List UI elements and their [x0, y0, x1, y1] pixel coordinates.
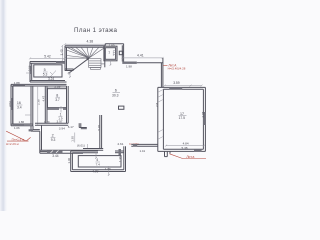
svg-text:3.44: 3.44 [52, 154, 58, 158]
svg-text:3.7: 3.7 [55, 98, 60, 102]
svg-text:6: 6 [115, 89, 117, 93]
svg-text:1.89: 1.89 [109, 43, 115, 47]
svg-text:4.41: 4.41 [137, 53, 144, 57]
svg-text:5.38: 5.38 [182, 146, 188, 150]
svg-text:16: 16 [17, 101, 21, 105]
svg-text:4.38: 4.38 [87, 40, 94, 44]
svg-text:5: 5 [44, 68, 46, 72]
svg-text:17: 17 [180, 112, 184, 116]
svg-text:7: 7 [108, 51, 110, 55]
svg-text:Лит.а: Лит.а [186, 155, 194, 159]
svg-text:План 1 этажа: План 1 этажа [74, 27, 118, 34]
svg-text:3.59: 3.59 [173, 81, 180, 85]
svg-text:1.41: 1.41 [140, 149, 146, 153]
svg-text:7.4: 7.4 [96, 163, 101, 167]
svg-text:3.4: 3.4 [17, 106, 22, 110]
svg-text:Н=2.29 м: Н=2.29 м [6, 142, 19, 146]
svg-text:2.38: 2.38 [37, 99, 41, 105]
svg-text:5.42: 5.42 [44, 54, 51, 58]
svg-text:9.3: 9.3 [51, 138, 56, 142]
svg-text:4.47: 4.47 [42, 95, 46, 101]
svg-text:17.5: 17.5 [179, 116, 186, 120]
svg-text:1.40: 1.40 [67, 157, 71, 163]
svg-text:Н=(5.40)/4.28: Н=(5.40)/4.28 [168, 67, 186, 71]
svg-text:30.3: 30.3 [112, 93, 119, 97]
svg-text:3.94: 3.94 [59, 126, 65, 130]
svg-text:2: 2 [52, 133, 54, 137]
svg-text:2.8: 2.8 [155, 102, 159, 107]
svg-text:4.84: 4.84 [183, 141, 189, 145]
svg-text:1.40: 1.40 [60, 49, 64, 55]
svg-text:6.17: 6.17 [68, 125, 74, 129]
svg-text:8: 8 [56, 93, 58, 97]
svg-text:2.08: 2.08 [201, 111, 205, 117]
svg-text:1.98: 1.98 [126, 65, 132, 69]
svg-text:5.76: 5.76 [97, 124, 101, 130]
svg-text:1.06: 1.06 [14, 126, 20, 130]
svg-text:4.61: 4.61 [117, 142, 123, 146]
svg-text:4.00: 4.00 [92, 170, 98, 174]
svg-text:4: 4 [96, 158, 98, 162]
svg-text:4.04: 4.04 [8, 101, 12, 107]
svg-text:0.96: 0.96 [28, 65, 32, 71]
svg-text:5.3: 5.3 [43, 73, 48, 77]
svg-text:(6.01): (6.01) [77, 143, 85, 147]
svg-text:1.30: 1.30 [71, 136, 75, 142]
svg-text:1.30: 1.30 [105, 167, 111, 171]
svg-text:1.36: 1.36 [118, 156, 122, 162]
